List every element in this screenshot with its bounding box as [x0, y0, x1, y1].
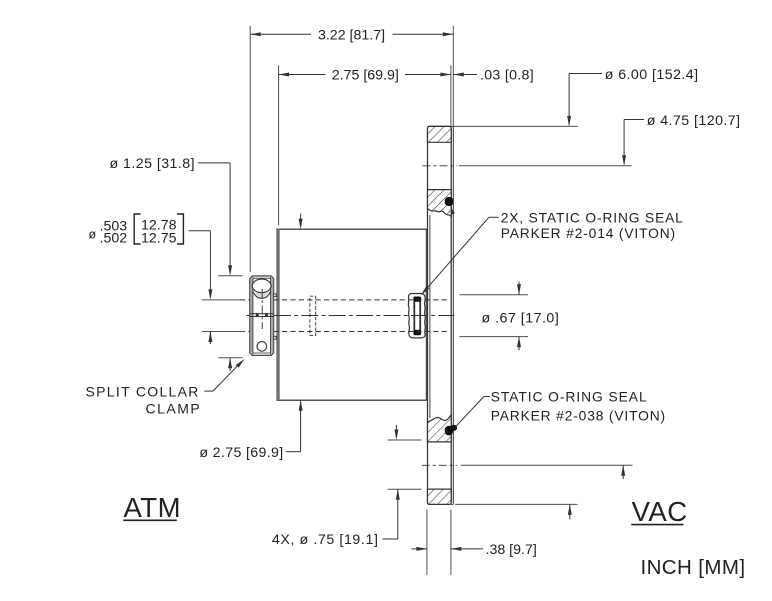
- extension line, shaft bottom (dia .502): [202, 331, 245, 333]
- svg-text:PARKER #2-014 (VITON): PARKER #2-014 (VITON): [501, 226, 676, 241]
- tube end line inside flange: [429, 215, 431, 418]
- flange section hatch, upper middle (with break line): [428, 190, 452, 217]
- split collar clamp body: [250, 276, 274, 355]
- leader dia 4.75 [120.7]: [622, 113, 740, 166]
- svg-text:ø 4.75 [120.7]: ø 4.75 [120.7]: [647, 113, 741, 129]
- svg-text:2X, STATIC O-RING SEAL: 2X, STATIC O-RING SEAL: [501, 211, 684, 226]
- extension line, flange bottom edge (dia 6.00): [455, 503, 577, 505]
- leader dia 1.25 [31.8]: [110, 156, 233, 276]
- flange body outline: [428, 126, 452, 504]
- leader dia .503/.502: [189, 231, 213, 344]
- o-ring seal B (Parker 2-038, bottom): [445, 426, 453, 436]
- extension line, flange right (.38): [450, 510, 452, 576]
- svg-text:12.75: 12.75: [141, 230, 177, 246]
- leader 2X static o-ring: [421, 207, 499, 295]
- svg-text:3.22 [81.7]: 3.22 [81.7]: [318, 27, 385, 43]
- extension line, lip face (3.22/.03): [452, 26, 454, 127]
- dimension dia .67 [17.0]: [482, 282, 560, 351]
- tube stub between clamp and cylinder, bottom: [274, 336, 276, 339]
- label VAC: [631, 496, 687, 527]
- svg-text:ø 2.75 [69.9]: ø 2.75 [69.9]: [199, 445, 283, 461]
- arrow dia 6.00 bottom: [568, 504, 572, 519]
- svg-text:ø: ø: [89, 227, 97, 241]
- flange section hatch, lower middle (with break line): [428, 415, 452, 442]
- dimension dia 2.75 [69.9] (cylinder): [199, 214, 302, 462]
- label split collar clamp: [86, 383, 202, 416]
- extension line, shaft top (dia .503): [202, 299, 245, 301]
- bottom bolt-hole centreline: [422, 464, 633, 466]
- o-ring seal A (Parker 2-014, top): [445, 197, 454, 206]
- label ATM: [123, 492, 181, 523]
- extension line, bolt hole bottom (4X dia .75): [388, 488, 422, 490]
- text dia .503/.502 [12.78/12.75]: [89, 214, 184, 247]
- arrow dia 4.75 bottom: [621, 465, 625, 479]
- extension line, clamp left face (3.22): [249, 26, 251, 272]
- leader dia 6.00 [152.4]: [567, 67, 698, 127]
- extension line, flange top edge (dia 6.00): [453, 125, 577, 127]
- svg-text:STATIC O-RING SEAL: STATIC O-RING SEAL: [491, 389, 648, 404]
- svg-text:ø 1.25 [31.8]: ø 1.25 [31.8]: [110, 156, 196, 172]
- tube stub between clamp and cylinder, top: [274, 294, 276, 297]
- extension line, clamp bottom (dia 1.25): [218, 357, 242, 359]
- main centreline: [247, 315, 455, 317]
- hidden o-ring groove inside cylinder: [310, 296, 316, 335]
- svg-text:CLAMP: CLAMP: [145, 401, 201, 417]
- extension line, bolt hole top (4X dia .75): [388, 439, 422, 441]
- leader split collar clamp: [204, 359, 244, 391]
- extension line, flange left (.38): [426, 510, 428, 576]
- svg-text:SPLIT COLLAR: SPLIT COLLAR: [86, 383, 200, 399]
- arrow dia 1.25 bottom: [228, 358, 232, 371]
- centre o-ring groove envelope (break outline): [408, 294, 425, 338]
- svg-text:VAC: VAC: [632, 496, 688, 527]
- label 2X static o-ring seal: [501, 211, 684, 242]
- clamp screw centreline: [261, 289, 263, 329]
- extension line, cylinder left face (2.75): [278, 65, 280, 225]
- top bolt-hole centreline: [423, 165, 632, 167]
- centre o-ring cross-section (2X Parker 2-014): [414, 297, 422, 336]
- extension line, clamp top (dia 1.25): [218, 275, 242, 277]
- svg-text:INCH [MM]: INCH [MM]: [641, 556, 746, 579]
- svg-text:.03 [0.8]: .03 [0.8]: [480, 68, 534, 84]
- flange section hatch, bottom: [428, 489, 452, 504]
- dimension 2.75 [69.9]: [279, 68, 451, 84]
- svg-text:.38 [9.7]: .38 [9.7]: [486, 542, 537, 558]
- svg-text:4X, ø .75 [19.1]: 4X, ø .75 [19.1]: [272, 532, 379, 548]
- clamp lower hole: [257, 342, 267, 352]
- extension line, flange right face (2.75): [450, 65, 452, 126]
- extension line, flange bore bottom (dia .67): [459, 336, 528, 338]
- dimension .03 [0.8]: [453, 68, 534, 84]
- dimension 4X dia .75 [19.1]: [272, 425, 400, 548]
- flange section hatch, top: [428, 126, 452, 142]
- clamp split gap with screw section: [250, 313, 274, 317]
- flange raised lip (.03 face): [451, 126, 453, 504]
- extension line, flange bore top (dia .67): [459, 294, 528, 296]
- svg-text:ø 6.00 [152.4]: ø 6.00 [152.4]: [605, 67, 699, 83]
- leader static o-ring 2-038: [451, 397, 490, 431]
- label static o-ring seal 2-038: [491, 389, 666, 423]
- clamp eye (screw boss): [252, 279, 271, 298]
- cylinder right edge at flange joint: [425, 229, 427, 400]
- svg-text:2.75 [69.9]: 2.75 [69.9]: [332, 68, 399, 84]
- dimension .38 [9.7]: [412, 542, 537, 558]
- svg-text:ATM: ATM: [124, 492, 182, 523]
- dimension 3.22 [81.7]: [250, 27, 453, 43]
- svg-text:ø .67 [17.0]: ø .67 [17.0]: [482, 311, 560, 327]
- hidden line, shaft bore top: [240, 299, 448, 301]
- svg-text:PARKER #2-038 (VITON): PARKER #2-038 (VITON): [491, 409, 666, 424]
- label INCH [MM]: [641, 556, 746, 579]
- cylinder body (tube housing): [277, 229, 428, 400]
- hidden line, shaft bore bottom: [240, 331, 448, 333]
- svg-text:.502: .502: [100, 231, 128, 247]
